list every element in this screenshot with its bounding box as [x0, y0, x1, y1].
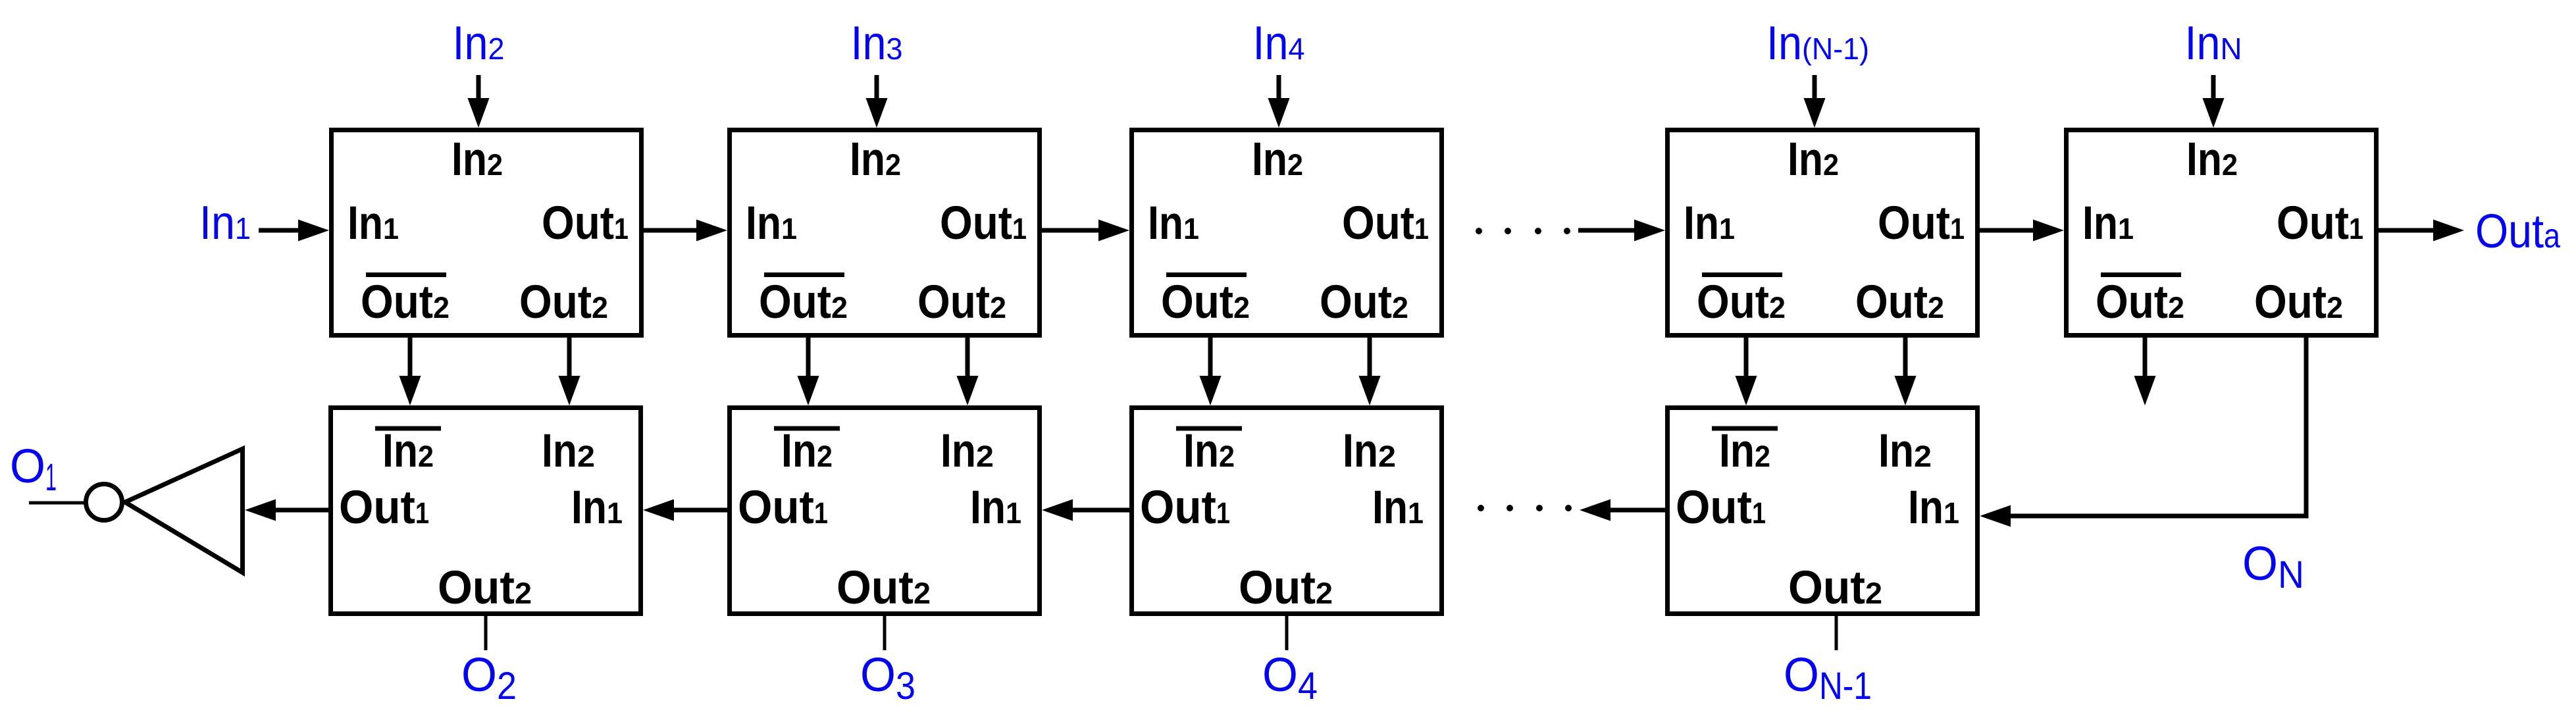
block U7 pin label In1 [970, 482, 1021, 534]
wire: U5 Out1 to Outa output arrow [2379, 220, 2464, 242]
wire: U9 Out2 output stub [1835, 614, 1838, 650]
block U7 pin label In2-bar [774, 425, 840, 477]
block U6 (bottom row cell 1) box outline [331, 408, 641, 614]
wire: vertical input arrow into block U1 In2 pin [468, 75, 490, 128]
node In2 input net label (blue) [453, 17, 505, 70]
node O4 net label (blue) [1262, 649, 1318, 707]
block U3 pin label In1 [1148, 197, 1199, 249]
block U3 pin label Out2 [1320, 276, 1408, 328]
block U4 pin label Out2 [1855, 276, 1944, 328]
wire: U4 Out1 to U5 In1 [1980, 220, 2064, 242]
block U8 pin label In1 [1372, 482, 1424, 534]
block U1 pin label In1 [348, 197, 399, 249]
block U9 pin label In1 [1908, 482, 1959, 534]
node InN input net label (blue) [2185, 17, 2242, 70]
block U9 pin label In2 [1878, 425, 1932, 477]
block U7 pin label Out1 [738, 482, 828, 534]
block U4 pin label In2 [1788, 134, 1839, 186]
block U5 pin label Out1 [2277, 197, 2363, 249]
inverter U10 output bubble [86, 484, 122, 521]
wire: U4 Out2 down-arrow into block U9 [1895, 336, 1917, 405]
block U5 (top row cell 5) box outline [2067, 130, 2377, 336]
node In3 input net label (blue) [851, 17, 903, 70]
wire: U7 Out1 to U6 In1 [643, 500, 727, 521]
block U2 pin label In1 [746, 197, 797, 249]
wire: In1 input arrow into block U1 [259, 220, 329, 242]
wire: U1 Out2 down-arrow into block U6 [559, 336, 580, 405]
block U9 pin label Out1 [1676, 482, 1766, 534]
wire: vertical input arrow into block U4 In2 pin [1804, 75, 1826, 128]
wire: vertical input arrow into block U2 In2 pin [866, 75, 888, 128]
block U6 pin label In2 [542, 425, 595, 477]
block U5 pin label In2 [2186, 134, 2238, 186]
block U3 pin label Out1 [1342, 197, 1429, 249]
block U9 pin label In2-bar [1712, 425, 1778, 477]
wire: U3 Out2 down-arrow into block U8 [1359, 336, 1381, 405]
wire: inverter output to O1 [29, 501, 86, 505]
node O2 net label (blue) [461, 649, 517, 707]
ellipsis dots (top row continuation) [1476, 228, 1570, 234]
block U2 pin label Out2 [917, 276, 1006, 328]
block U6 pin label Out1 [339, 482, 429, 534]
block U7 (bottom row cell 2) box outline [730, 408, 1040, 614]
wire: U5 Out2 elbow down-left into U9 In1 (net ON) [1980, 336, 2309, 527]
wire: U2 Out1 to U3 In1 [1042, 220, 1129, 242]
wire: U1 Out1 to U2 In1 [644, 220, 727, 242]
block U8 pin label In2 [1343, 425, 1396, 477]
block U8 pin label In2-bar [1176, 425, 1242, 477]
block U9 pin label Out2 [1788, 562, 1882, 614]
node Outa output net label (blue) [2475, 205, 2560, 258]
block U1 pin label Out2-bar [361, 275, 450, 329]
wire: U7 Out2 output stub [883, 614, 887, 650]
wire: U8 Out2 output stub [1285, 614, 1289, 650]
wire: U1 Out2-bar down-arrow into block U6 [399, 336, 421, 405]
block U6 pin label Out2 [438, 562, 532, 614]
block U7 pin label Out2 [837, 562, 931, 614]
inverter U10 triangle [125, 449, 243, 573]
block U5 pin label In1 [2082, 197, 2134, 249]
wire: continuation into U4 In1 [1578, 220, 1665, 242]
block U2 pin label Out2-bar [759, 275, 848, 329]
block U3 pin label In2 [1252, 134, 1303, 186]
wire: U9 Out1 to ellipsis (leftward) [1580, 500, 1665, 521]
block U3 pin label Out2-bar [1161, 275, 1250, 329]
wire: vertical input arrow into block U5 In2 pin [2203, 75, 2225, 128]
block U1 (top row cell 1) box outline [332, 130, 642, 336]
block U8 pin label Out2 [1239, 562, 1333, 614]
wire: U3 Out2-bar down-arrow into block U8 [1200, 336, 1222, 405]
block U5 pin label Out2-bar [2096, 275, 2184, 329]
node In4 input net label (blue) [1253, 17, 1305, 70]
block U1 pin label In2 [451, 134, 503, 186]
wire: vertical input arrow into block U3 In2 pin [1268, 75, 1290, 128]
block U9 (bottom row cell 4) box outline [1668, 408, 1978, 614]
block U7 pin label In2 [940, 425, 994, 477]
wire: U2 Out2 down-arrow into block U7 [957, 336, 979, 405]
ellipsis dots (bottom row continuation) [1478, 505, 1572, 511]
node ON-1 net label (blue) [1784, 649, 1872, 707]
wire: U5 Out2-bar down-arrow (unconnected) [2134, 336, 2156, 405]
block U4 (top row cell 4) box outline [1668, 130, 1978, 336]
block U4 pin label Out2-bar [1697, 275, 1786, 329]
node ON net label (blue) [2242, 538, 2304, 596]
wire: U6 Out1 to inverter input [245, 500, 328, 521]
block U4 pin label Out1 [1878, 197, 1965, 249]
wire: U6 Out2 output stub [484, 614, 488, 650]
block U8 (bottom row cell 3) box outline [1132, 408, 1442, 614]
node O1 output net label (blue) [10, 440, 57, 499]
block U2 pin label Out1 [940, 197, 1027, 249]
block U8 pin label Out1 [1140, 482, 1230, 534]
block U2 (top row cell 2) box outline [730, 130, 1040, 336]
wire: U4 Out2-bar down-arrow into block U9 [1736, 336, 1757, 405]
node In(N-1) input net label (blue) [1766, 17, 1869, 70]
block U6 pin label In1 [571, 482, 623, 534]
node O3 net label (blue) [860, 649, 915, 707]
block U6 pin label In2-bar [375, 425, 441, 477]
wire: U8 Out1 to U7 In1 [1042, 500, 1129, 521]
block U5 pin label Out2 [2254, 276, 2343, 328]
block U3 (top row cell 3) box outline [1132, 130, 1442, 336]
block U1 pin label Out2 [519, 276, 608, 328]
block U1 pin label Out1 [542, 197, 629, 249]
block U4 pin label In1 [1684, 197, 1735, 249]
node In1 input net label (blue) [199, 197, 251, 249]
block U2 pin label In2 [850, 134, 901, 186]
wire: U2 Out2-bar down-arrow into block U7 [798, 336, 819, 405]
